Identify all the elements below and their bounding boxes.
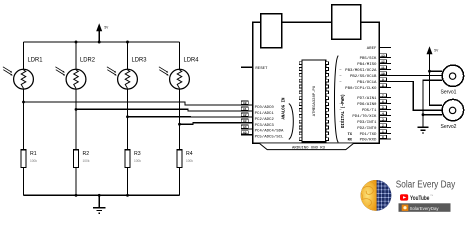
svg-text:LDR2: LDR2 [80,58,96,64]
ground (left circuit) [93,195,105,213]
pin A4 (PC4/ADC4/SDA) [241,125,284,134]
USB connector block [261,14,282,48]
svg-text:DIGITAL (~PWM): DIGITAL (~PWM) [341,94,346,128]
svg-text:PD7/AIN1: PD7/AIN1 [357,96,377,101]
servo motor Servo1 [441,65,464,95]
bracket digital group [334,56,338,143]
svg-text:12: 12 [381,61,385,64]
pin 12 (PB4/MISO) [357,60,391,67]
svg-text:PB4/MISO: PB4/MISO [357,62,377,67]
pin 2 (PD2/INT0) [357,124,391,131]
resistor R2 100k [74,150,90,196]
svg-text:PC1/ADC1: PC1/ADC1 [255,111,275,116]
node top rail junction 5V [98,41,101,44]
svg-text:100k: 100k [83,159,90,163]
svg-text:PB3/MOSI/OC2A: PB3/MOSI/OC2A [345,68,377,73]
resistor R3 100k [125,150,141,196]
svg-text:PB5/SCK: PB5/SCK [360,56,377,61]
pin A3 (PC3/ADC3) [241,119,274,128]
pin A0 (PC0/ADC0) [241,101,274,110]
svg-text:A3: A3 [243,120,247,123]
pin 7 (PD7/AIN1) [357,94,391,101]
node top rail junction LDR2 [75,41,78,44]
pin A2 (PC2/ADC2) [241,113,274,122]
svg-text:PD5/T1: PD5/T1 [362,108,377,113]
svg-text:LDR3: LDR3 [132,58,148,64]
svg-text:Servo2: Servo2 [441,124,457,130]
pin 1 (PD1/TXD) [360,130,391,137]
svg-text:100k: 100k [30,159,37,163]
svg-text:2: 2 [382,125,384,128]
wire LDR4 junction to pin A3 [180,123,253,124]
svg-text:TM: TM [430,195,433,197]
wire pin10 to servo1 signal [391,75,442,77]
node junction LDR2/R2 [75,108,78,111]
node bottom rail junction R2 [75,194,78,197]
logo Solar Every Day globe [360,179,392,212]
wire bottom ground rail [24,194,180,196]
node bottom rail junction R3 [126,194,129,197]
pin 10 (PB2/SS/OC1B) [339,72,391,79]
pin A1 (PC1/ADC1) [241,107,274,116]
svg-text:A1: A1 [243,108,247,111]
node junction LDR4/R4 [178,123,181,126]
pin 6 (PD6/AIN0) [339,100,391,107]
svg-text:PB0/ICP1/CLKO: PB0/ICP1/CLKO [345,86,377,91]
svg-text:PD1/TXD: PD1/TXD [360,132,377,137]
servo motor Servo2 [441,99,464,130]
svg-text:A4: A4 [243,126,247,129]
power 5V supply (left) [96,23,109,42]
arduino uno R3 board U1 [253,22,380,143]
svg-text:YouTube: YouTube [410,195,430,202]
svg-text:11: 11 [381,67,385,70]
svg-text:A2: A2 [243,114,247,117]
pin RESET [241,67,268,71]
wire LDR2 junction to pin A1 [76,109,253,111]
pin 8 (PB0/ICP1/CLKO) [345,84,391,91]
wire ground to servo2 GND [423,114,442,116]
node top rail junction LDR3 [126,41,129,44]
node ground to servo2 [422,113,425,116]
svg-text:TX: TX [348,133,353,137]
svg-text:LDR4: LDR4 [184,58,200,64]
svg-text:PD0/RXD: PD0/RXD [360,137,377,142]
resistor R1 100k [21,150,37,196]
pin 0 (PD0/RXD) [360,135,391,142]
photoresistor LDR1 [3,42,43,150]
svg-text:PB2/SS/OC1B: PB2/SS/OC1B [350,74,377,79]
svg-text:RESET: RESET [255,67,268,71]
svg-text:0: 0 [382,136,384,139]
svg-text:100k: 100k [134,159,141,163]
node bottom rail junction ground [98,194,101,197]
wire 5V vertical to servos [430,54,442,106]
svg-text:R2: R2 [83,151,90,157]
pin 11 (PB3/MOSI/OC2A) [339,66,391,73]
node junction LDR1/R1 [22,101,25,104]
pin 4 (PD4/T0/XCK) [352,112,391,119]
svg-text:PC0/ADC0: PC0/ADC0 [255,105,275,110]
svg-text:R4: R4 [186,151,193,157]
IC ATMEGA328P-PU [299,60,328,142]
svg-text:ANALOG IN: ANALOG IN [282,97,287,119]
svg-text:6: 6 [382,101,384,104]
svg-text:A5: A5 [243,132,247,135]
svg-text:PD2/INT0: PD2/INT0 [357,126,377,131]
svg-text:R1: R1 [30,151,37,157]
svg-text:ARDUINO UNO R3: ARDUINO UNO R3 [292,146,326,150]
YouTube icon [400,194,408,200]
svg-text:9: 9 [382,79,384,82]
power 5V supply (servo) [427,46,440,54]
svg-text:PD3/INT1: PD3/INT1 [357,120,377,125]
svg-text:10: 10 [381,73,385,76]
svg-text:PC2/ADC2: PC2/ADC2 [255,117,275,122]
power jack block [332,5,361,40]
wire ground vertical servo side [423,80,442,127]
svg-text:A0: A0 [243,102,247,105]
svg-text:3: 3 [382,119,384,122]
pin 13 (PB5/SCK) [360,54,391,61]
svg-text:13: 13 [381,55,385,58]
svg-text:RX: RX [348,138,353,142]
svg-text:PD6/AIN0: PD6/AIN0 [357,102,377,107]
pin 5 (PD5/T1) [339,106,391,113]
ground (servo side) [417,127,428,133]
pin A5 (PC5/ADC5/SCL) [241,131,284,140]
svg-text:7: 7 [382,95,384,98]
board name banner ARDUINO UNO R3 [259,143,353,150]
svg-text:Servo1: Servo1 [441,89,457,95]
svg-text:4: 4 [382,113,384,116]
svg-text:LDR1: LDR1 [28,58,44,64]
node 5V to servo1 [428,70,431,73]
svg-text:PD4/T0/XCK: PD4/T0/XCK [352,114,377,119]
svg-text:100k: 100k [186,159,193,163]
wire 5V to servo1 V+ [430,70,442,72]
svg-text:R3: R3 [134,151,141,157]
wire LDR3 junction to pin A2 [128,116,253,118]
wire LDR1 junction to pin A0 [24,102,253,105]
svg-text:PC3/ADC3: PC3/ADC3 [255,123,275,128]
svg-text:5: 5 [382,107,384,110]
svg-text:Solar Every Day: Solar Every Day [396,179,455,190]
channel banner SolarEveryDay [399,203,451,212]
pin 3 (PD3/INT1) [339,118,391,125]
node junction LDR3/R3 [126,115,129,118]
svg-text:1: 1 [382,131,384,134]
wire top 5V rail [24,41,180,43]
svg-text:8: 8 [382,85,384,88]
bracket analog group [289,104,294,140]
pin 9 (PB1/OC1A) [339,78,391,85]
svg-text:PC5/ADC5/SCL: PC5/ADC5/SCL [255,135,284,140]
svg-text:ATMEGA328P-PU: ATMEGA328P-PU [313,86,317,116]
photoresistor LDR4 [159,42,199,150]
resistor R4 100k [177,150,193,196]
photoresistor LDR2 [55,42,95,150]
svg-text:PB1/OC1A: PB1/OC1A [357,80,377,85]
photoresistor LDR3 [107,42,147,150]
wire pin9 to servo2 signal [391,82,442,111]
pin AREF (AREF) [367,47,391,51]
svg-text:AREF: AREF [367,47,377,51]
svg-text:PC4/ADC4/SDA: PC4/ADC4/SDA [255,129,284,134]
svg-text:SolarEveryDay: SolarEveryDay [410,206,440,212]
